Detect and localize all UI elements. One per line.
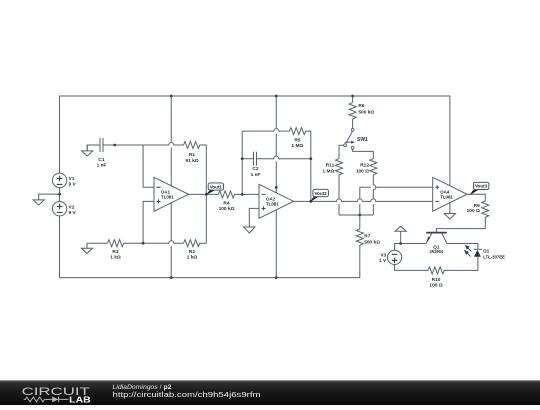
svg-text:1 MΩ: 1 MΩ [322, 169, 334, 175]
junction OA2 V- on bottom rail [275, 276, 278, 279]
svg-text:R9: R9 [474, 203, 480, 209]
resistor R12 [370, 159, 377, 175]
wire SW1 throw to R12 [353, 149, 374, 159]
svg-text:V2: V2 [69, 205, 75, 211]
junction C2 right [309, 157, 312, 160]
svg-text:R11: R11 [326, 163, 335, 169]
wire OA1 output to OA2 inverting input [189, 193, 260, 195]
op-amp OA4 [433, 177, 467, 211]
switch SW1 actuator arrow [345, 141, 352, 143]
svg-text:TL081: TL081 [266, 202, 279, 207]
switch SW1 terminal circles [344, 128, 354, 149]
resistor R7 [356, 229, 363, 245]
wire R5 right vertical down to OA2 output [305, 131, 310, 201]
svg-text:100 kΩ: 100 kΩ [219, 206, 235, 212]
capacitor C2 [254, 152, 257, 166]
LED D1 light arrows [465, 246, 472, 257]
ground V1V2 wire [39, 194, 60, 200]
ground C1 stub [86, 145, 88, 151]
node Vout1 label [206, 183, 224, 195]
power flag triangle [395, 226, 406, 231]
svg-text:R7: R7 [364, 233, 370, 239]
logo resistor zigzag [24, 397, 52, 402]
wire OA4 non-inverting input to R11/R12/R7 node [360, 187, 433, 215]
hop gap [359, 199, 361, 204]
resistor R4 [218, 191, 234, 198]
wire C1 left to ground [87, 145, 100, 151]
junction OA1 V+ on top rail [170, 95, 173, 98]
svg-text:1 MΩ: 1 MΩ [291, 143, 303, 149]
wire OA4 output to R9 [467, 194, 485, 201]
svg-text:1 nF: 1 nF [251, 172, 261, 178]
op-amp OA2 [259, 184, 294, 218]
junction R4/R5/C2 at OA2 inverting input [241, 193, 244, 196]
svg-text:http://circuitlab.com/ch9h54j6: http://circuitlab.com/ch9h54j6s9rfm [113, 390, 261, 399]
wire R3 to R2 with hop over OA1 supply rail [124, 241, 184, 244]
junction OA2 V+ pin [275, 186, 278, 189]
resistor R1 [184, 142, 200, 149]
hop gap [170, 241, 172, 246]
svg-text:100 Ω: 100 Ω [467, 208, 480, 214]
wire R11/R12 bottom bus [339, 214, 373, 216]
junction OA1 V- on bottom rail [170, 276, 173, 279]
wire C1 right to OA1 inverting input [103, 145, 154, 187]
svg-text:C2: C2 [252, 166, 258, 172]
logo diode [52, 397, 58, 403]
wire OA2 supply rail vertical [275, 96, 277, 278]
svg-text:Vout2: Vout2 [315, 191, 328, 196]
LED D1 body [474, 250, 481, 257]
svg-text:R2: R2 [189, 249, 195, 255]
svg-text:R5: R5 [294, 138, 300, 144]
svg-text:TL081: TL081 [440, 195, 453, 200]
svg-text:1 nF: 1 nF [97, 162, 107, 168]
svg-text:100 Ω: 100 Ω [429, 282, 442, 288]
svg-text:R10: R10 [432, 277, 441, 283]
component value labels [69, 103, 506, 288]
wire C1 node to R1 with hop over supply rail [143, 143, 183, 146]
junction power flag at V3/Q1 emitter wire [399, 242, 402, 245]
svg-text:R6: R6 [358, 103, 364, 109]
svg-text:SW1: SW1 [357, 137, 368, 143]
junction node Vout2 [309, 200, 312, 203]
junction OA2 V+ on top rail [275, 95, 278, 98]
junction V1-V2 midpoint [58, 193, 61, 196]
resistor R5 [289, 128, 305, 135]
svg-text:100 Ω: 100 Ω [356, 169, 369, 175]
diode D1 cathode bar [474, 248, 482, 250]
power flag stub near Q1 [400, 231, 402, 243]
hop gap [275, 129, 277, 134]
voltage source V1 [52, 173, 66, 187]
ground C1 triangle [82, 151, 93, 156]
wire R6 bottom to switch [352, 119, 354, 129]
ground OA2 triangle [244, 227, 255, 233]
ground OA4 triangle [444, 214, 455, 220]
wire SW1 pole to R11 [339, 145, 344, 158]
node Vout2 label [310, 189, 329, 202]
svg-text:V1: V1 [69, 176, 75, 182]
svg-text:1 V: 1 V [379, 258, 387, 264]
svg-text:1 kΩ: 1 kΩ [187, 254, 198, 260]
transistor Q1 [426, 233, 447, 244]
svg-text:Vout3: Vout3 [475, 184, 488, 189]
resistor R6 top lead [352, 96, 354, 103]
wire bottom rail [60, 245, 360, 278]
wire OA1 supply rail vertical [170, 96, 172, 278]
svg-text:D1: D1 [483, 249, 489, 255]
resistor R9 [482, 201, 489, 217]
svg-text:C1: C1 [98, 157, 104, 163]
wire OA2 output (Vout2) to OA4 inverting input with hops [294, 199, 433, 202]
hop gap [371, 186, 376, 188]
svg-text:R4: R4 [223, 200, 229, 206]
svg-text:1 kΩ: 1 kΩ [110, 254, 121, 260]
wire V3 bottom to R10 [395, 265, 428, 271]
resistor R6 [349, 103, 356, 119]
hop gap [275, 156, 277, 161]
junction C2 left [241, 157, 244, 160]
hop gap [338, 199, 340, 204]
wire Q1 collector to D1 [447, 244, 478, 250]
svg-text:2N3904: 2N3904 [430, 249, 444, 255]
resistor R7 top lead [359, 215, 361, 229]
op-amp OA1 [154, 177, 189, 211]
svg-text:TL081: TL081 [161, 195, 174, 200]
capacitor C1 [100, 138, 103, 152]
svg-text:Vout1: Vout1 [210, 185, 223, 190]
svg-text:LAB: LAB [69, 395, 91, 404]
wire C2/R5 left vertical to R4 node [241, 131, 243, 194]
wire outer loop: top rail and left rail [60, 96, 450, 278]
junction R6 on top rail [351, 95, 354, 98]
wire R12 bottom lead with hop over non-inverting wire [373, 175, 376, 215]
junction C1 right terminal [113, 144, 116, 147]
junction R7 top at R11/R12 bus [358, 214, 361, 217]
svg-text:R3: R3 [112, 249, 118, 255]
hop gap [170, 142, 172, 147]
wire V3 top to Q1 emitter [395, 244, 426, 251]
svg-text:R12: R12 [360, 163, 369, 169]
junction OA1 non-inverting at R3/R2 [142, 242, 145, 245]
svg-text:500 kΩ: 500 kΩ [358, 109, 374, 115]
resistor R3 [108, 240, 124, 247]
wire R9 bottom to Q1 base [436, 217, 485, 232]
hop gap [372, 199, 374, 204]
svg-text:500 kΩ: 500 kΩ [364, 239, 380, 245]
wire R10 to D1 bottom [444, 257, 478, 271]
node Vout3 label [469, 182, 489, 195]
wire C2 left lead [242, 158, 253, 160]
switch SW1 arrow head [351, 141, 355, 144]
wire R3 left to ground [87, 243, 108, 248]
voltage source V2 [52, 202, 66, 216]
svg-text:V3: V3 [380, 253, 386, 259]
ground R3 triangle [81, 248, 92, 253]
svg-text:LTL-307EE: LTL-307EE [483, 254, 506, 260]
ground V1V2 triangle [33, 200, 44, 205]
resistor R2 [184, 240, 200, 247]
svg-text:R1: R1 [189, 152, 195, 158]
wire R1 right / R2 right vertical (output node) [200, 145, 207, 243]
svg-text:91 kΩ: 91 kΩ [185, 158, 198, 164]
junction node Vout1 [205, 193, 208, 196]
wire C2 right with hop over OA2 supply rail [257, 156, 311, 159]
wire R11 bottom lead [338, 175, 340, 215]
wire R5 left with hop over OA2 supply rail [242, 129, 289, 132]
voltage source V3 [388, 250, 402, 264]
wire OA1 non-inverting input down to R3/R2 node [143, 201, 154, 243]
resistor R11 [336, 159, 343, 175]
resistor R10 [428, 267, 444, 274]
svg-text:9 V: 9 V [69, 181, 77, 187]
svg-text:9 V: 9 V [69, 210, 77, 216]
switch SW1 lever [345, 130, 353, 146]
wire OA2 non-inverting input to ground [249, 208, 259, 227]
